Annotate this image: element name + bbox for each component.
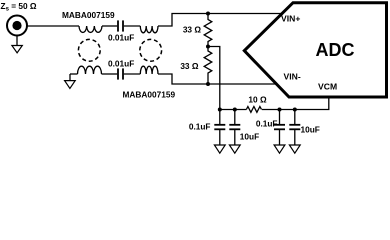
svg-text:10uF: 10uF: [301, 125, 320, 135]
svg-text:10uF: 10uF: [240, 132, 259, 142]
svg-text:33 Ω: 33 Ω: [183, 24, 202, 34]
node C5 junction: [278, 108, 282, 112]
capacitor C5 0.1uF: [274, 110, 285, 146]
svg-text:0.1uF: 0.1uF: [256, 119, 278, 129]
capacitor C4 10uF: [229, 110, 240, 146]
resistor R3 10 ohm: [246, 107, 261, 113]
transformer T2 core: [140, 39, 162, 61]
resistor R2 33 ohm: [204, 47, 212, 85]
svg-text:VIN+: VIN+: [281, 14, 300, 24]
svg-text:MABA007159: MABA007159: [62, 10, 115, 20]
op-amp U1 ADC block: [244, 3, 386, 97]
svg-text:VCM: VCM: [318, 82, 337, 92]
svg-text:0.01uF: 0.01uF: [108, 33, 134, 43]
wire C1 to T2 primary: [124, 25, 141, 27]
node mid divider: [206, 45, 210, 49]
capacitor C1 0.01uF: [118, 20, 123, 31]
wire rail left segment: [220, 109, 247, 111]
svg-text:0.1uF: 0.1uF: [189, 122, 211, 132]
svg-text:33 Ω: 33 Ω: [180, 61, 199, 71]
wire mid node to decoupling rail: [208, 47, 220, 110]
wire T2 secondary to ADC VIN-: [158, 74, 278, 84]
node VIN+ junction: [206, 12, 210, 16]
resistor R1 33 ohm: [204, 14, 212, 47]
node C6 junction: [293, 108, 297, 112]
ground (C5): [274, 145, 285, 153]
capacitor C2 0.01uF: [118, 68, 123, 79]
ground (C3): [214, 145, 225, 153]
source V1: [7, 16, 27, 36]
capacitor C3 0.1uF: [214, 110, 225, 146]
inductor T2 primary winding: [140, 26, 158, 33]
ground (C6): [289, 145, 300, 153]
node VIN- junction: [206, 82, 210, 86]
svg-text:ADC: ADC: [316, 40, 355, 60]
inductor T1 primary winding: [79, 26, 102, 32]
wire source to T1 primary: [27, 25, 79, 27]
inductor T1 secondary winding: [78, 66, 102, 74]
transformer T1 core: [78, 39, 100, 61]
svg-text:VIN-: VIN-: [284, 72, 301, 82]
node C4 junction: [233, 108, 237, 112]
wire ground to T1 secondary: [70, 73, 78, 75]
wire T2 primary to ADC VIN+: [158, 14, 281, 27]
wire C2 to T2 secondary: [124, 73, 141, 75]
capacitor C6 10uF: [289, 110, 300, 146]
svg-text:10 Ω: 10 Ω: [248, 94, 267, 104]
ground (source): [12, 36, 22, 53]
wire T1 primary to C1: [102, 25, 117, 27]
ground (C4): [229, 145, 240, 153]
svg-text:0.01uF: 0.01uF: [108, 59, 134, 69]
ground (T1 secondary): [65, 74, 76, 88]
wire rail right segment to VCM: [262, 96, 329, 110]
wire T1 secondary to C2: [102, 73, 118, 75]
svg-text:MABA007159: MABA007159: [123, 90, 176, 100]
node C3 junction: [218, 108, 222, 112]
inductor T2 secondary winding: [140, 66, 158, 74]
